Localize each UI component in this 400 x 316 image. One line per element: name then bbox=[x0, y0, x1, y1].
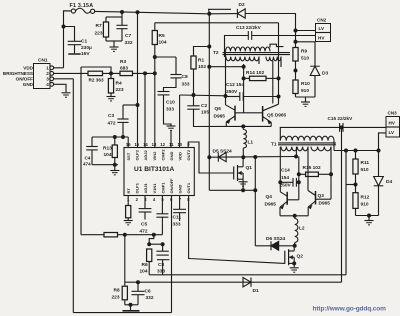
svg-text:2: 2 bbox=[136, 197, 139, 202]
svg-text:223: 223 bbox=[95, 31, 103, 37]
svg-text:510: 510 bbox=[361, 167, 369, 173]
svg-text:ADJ1: ADJ1 bbox=[143, 182, 148, 193]
svg-text:R5: R5 bbox=[159, 33, 165, 39]
svg-text:OLP1: OLP1 bbox=[135, 182, 140, 193]
svg-text:Q5 D965: Q5 D965 bbox=[267, 112, 287, 118]
svg-text:R12: R12 bbox=[361, 195, 370, 201]
svg-text:C7: C7 bbox=[125, 33, 131, 39]
svg-text:R11: R11 bbox=[361, 160, 370, 166]
svg-text:ADJ2: ADJ2 bbox=[143, 149, 148, 160]
svg-text:GND: GND bbox=[169, 152, 174, 161]
svg-text:http://www.go-gddq.com: http://www.go-gddq.com bbox=[313, 306, 387, 313]
svg-text:105: 105 bbox=[201, 110, 209, 116]
svg-text:C15 22/2kV: C15 22/2kV bbox=[328, 116, 354, 121]
svg-text:2: 2 bbox=[46, 71, 49, 76]
svg-text:Q6: Q6 bbox=[215, 106, 222, 112]
svg-text:10: 10 bbox=[177, 142, 182, 147]
svg-text:910: 910 bbox=[301, 88, 309, 94]
svg-text:1: 1 bbox=[46, 66, 49, 71]
svg-text:Q4: Q4 bbox=[266, 194, 273, 200]
svg-text:333: 333 bbox=[173, 222, 181, 228]
svg-text:CMP1: CMP1 bbox=[160, 182, 165, 194]
svg-text:C6: C6 bbox=[145, 289, 151, 295]
svg-text:102: 102 bbox=[198, 64, 206, 70]
svg-text:333: 333 bbox=[157, 269, 165, 275]
svg-text:510: 510 bbox=[301, 56, 309, 62]
svg-text:OUT2: OUT2 bbox=[186, 149, 191, 160]
svg-text:C2: C2 bbox=[201, 103, 207, 109]
svg-text:11: 11 bbox=[169, 142, 174, 147]
svg-text:CN2: CN2 bbox=[317, 18, 327, 23]
svg-text:910: 910 bbox=[361, 202, 369, 208]
svg-text:HV: HV bbox=[318, 36, 325, 41]
svg-text:T1: T1 bbox=[271, 142, 277, 148]
svg-text:OUT1: OUT1 bbox=[186, 182, 191, 193]
svg-text:332: 332 bbox=[125, 40, 133, 46]
svg-text:16: 16 bbox=[126, 142, 131, 147]
svg-text:CMP2: CMP2 bbox=[160, 149, 165, 161]
svg-text:D3: D3 bbox=[322, 71, 328, 77]
svg-text:C5: C5 bbox=[141, 222, 147, 228]
svg-text:4: 4 bbox=[46, 82, 49, 87]
svg-text:ON/OFF: ON/OFF bbox=[169, 178, 174, 194]
svg-text:R3: R3 bbox=[120, 59, 126, 65]
svg-text:223: 223 bbox=[116, 87, 124, 93]
svg-text:R9: R9 bbox=[301, 49, 307, 55]
svg-text:U1 BIT3101A: U1 BIT3101A bbox=[134, 166, 175, 173]
svg-text:R4: R4 bbox=[116, 81, 122, 87]
svg-text:D965: D965 bbox=[319, 201, 331, 207]
svg-text:C11: C11 bbox=[173, 215, 182, 221]
svg-text:333: 333 bbox=[166, 107, 174, 113]
svg-text:472: 472 bbox=[108, 121, 116, 127]
svg-text:D4: D4 bbox=[386, 179, 392, 185]
svg-text:104: 104 bbox=[140, 269, 148, 275]
svg-text:Q2: Q2 bbox=[297, 254, 304, 260]
svg-text:R14 102: R14 102 bbox=[246, 70, 264, 76]
svg-text:HV: HV bbox=[389, 121, 396, 126]
svg-text:LV: LV bbox=[389, 130, 395, 135]
svg-text:333: 333 bbox=[182, 82, 190, 88]
svg-text:VDD: VDD bbox=[178, 152, 183, 161]
svg-text:Q1: Q1 bbox=[246, 165, 253, 171]
svg-text:683: 683 bbox=[120, 66, 128, 72]
svg-text:R15 102: R15 102 bbox=[303, 165, 321, 171]
svg-text:D1: D1 bbox=[253, 288, 259, 294]
svg-text:C8: C8 bbox=[182, 74, 188, 80]
svg-text:250V: 250V bbox=[226, 89, 238, 95]
svg-text:D5 SS24: D5 SS24 bbox=[213, 148, 233, 154]
svg-text:332: 332 bbox=[146, 295, 154, 301]
svg-text:F1 3.15A: F1 3.15A bbox=[70, 3, 94, 9]
svg-text:R8: R8 bbox=[114, 288, 120, 294]
svg-text:472: 472 bbox=[140, 229, 148, 235]
svg-text:15: 15 bbox=[134, 142, 139, 147]
svg-text:D965: D965 bbox=[265, 202, 277, 208]
svg-text:L1: L1 bbox=[248, 140, 254, 146]
svg-text:R6: R6 bbox=[142, 262, 148, 268]
svg-text:T2: T2 bbox=[213, 50, 219, 56]
svg-text:ON/OFF: ON/OFF bbox=[16, 77, 34, 82]
svg-text:16V: 16V bbox=[81, 51, 90, 57]
svg-text:D965: D965 bbox=[214, 114, 226, 120]
svg-text:4: 4 bbox=[153, 197, 156, 202]
svg-text:BRIGHTNESS: BRIGHTNESS bbox=[3, 71, 33, 76]
svg-text:R2 363: R2 363 bbox=[89, 78, 105, 83]
svg-text:GND: GND bbox=[23, 82, 34, 87]
svg-text:230µ: 230µ bbox=[81, 45, 92, 51]
svg-text:L2: L2 bbox=[299, 226, 305, 232]
svg-text:C10: C10 bbox=[166, 100, 175, 106]
svg-text:C1: C1 bbox=[81, 39, 87, 45]
svg-text:R7: R7 bbox=[96, 23, 102, 29]
svg-text:C14: C14 bbox=[281, 168, 290, 174]
svg-text:CN3: CN3 bbox=[388, 111, 398, 116]
svg-text:OLP2: OLP2 bbox=[135, 149, 140, 160]
svg-text:474: 474 bbox=[83, 162, 91, 167]
svg-text:D2: D2 bbox=[239, 2, 245, 8]
svg-text:104: 104 bbox=[159, 40, 167, 46]
svg-text:R10: R10 bbox=[301, 81, 310, 87]
svg-text:SST: SST bbox=[126, 152, 131, 160]
svg-text:13: 13 bbox=[152, 142, 157, 147]
svg-text:CN1: CN1 bbox=[38, 58, 48, 64]
svg-text:223: 223 bbox=[112, 295, 120, 301]
svg-text:12: 12 bbox=[160, 142, 165, 147]
svg-text:V1N1: V1N1 bbox=[152, 183, 157, 194]
svg-text:R1: R1 bbox=[198, 58, 204, 64]
svg-text:104: 104 bbox=[104, 152, 112, 158]
svg-text:R13: R13 bbox=[103, 146, 112, 152]
svg-text:14: 14 bbox=[143, 142, 148, 147]
svg-text:C3: C3 bbox=[108, 113, 114, 119]
svg-text:C4: C4 bbox=[85, 156, 91, 161]
svg-text:C13 22/2kV: C13 22/2kV bbox=[236, 25, 262, 30]
svg-text:VIN2: VIN2 bbox=[152, 151, 157, 161]
svg-text:D6 SS24: D6 SS24 bbox=[266, 236, 286, 242]
svg-text:C12 154: C12 154 bbox=[226, 82, 244, 88]
svg-text:LV: LV bbox=[319, 26, 325, 31]
svg-text:154: 154 bbox=[281, 175, 289, 181]
svg-text:VDD: VDD bbox=[23, 66, 33, 71]
svg-text:Q3: Q3 bbox=[318, 193, 325, 199]
svg-text:GND: GND bbox=[178, 185, 183, 194]
svg-text:250V: 250V bbox=[280, 183, 292, 189]
svg-text:RT: RT bbox=[126, 188, 131, 194]
svg-text:C8: C8 bbox=[158, 262, 164, 268]
svg-text:3: 3 bbox=[46, 77, 49, 82]
